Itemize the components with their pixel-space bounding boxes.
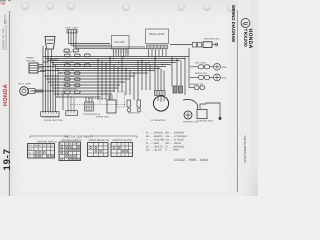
- svg-text:BRAKE SW: BRAKE SW: [195, 72, 207, 75]
- svg-text:SPARK UNIT: SPARK UNIT: [96, 116, 110, 119]
- svg-text:ALTERNATOR: ALTERNATOR: [151, 119, 166, 122]
- svg-text:19-7: 19-7: [2, 148, 13, 170]
- svg-text:TAIL LIGHT: TAIL LIGHT: [195, 62, 207, 65]
- svg-text:ALTERNATOR 4P: ALTERNATOR 4P: [42, 116, 60, 119]
- svg-text:TL: TL: [65, 143, 67, 146]
- svg-text:HL: HL: [60, 143, 62, 146]
- svg-text:CONTROL BOX: CONTROL BOX: [197, 120, 213, 123]
- svg-text:HEAD LIGHT: HEAD LIGHT: [65, 27, 79, 30]
- svg-text:HM: HM: [1, 2, 6, 6]
- svg-text:BRAKE SW: BRAKE SW: [63, 81, 75, 84]
- svg-text:SPARK UNIT GND: SPARK UNIT GND: [44, 119, 63, 122]
- svg-text:LIGHTING SWITCH: LIGHTING SWITCH: [61, 139, 82, 142]
- svg-text:P ...... PINK: P ...... PINK: [166, 149, 180, 152]
- svg-text:FRONT BRAKE SW: FRONT BRAKE SW: [89, 139, 110, 142]
- svg-text:HORN SW: HORN SW: [63, 75, 75, 78]
- svg-text:BU ..... BLUE: BU ..... BLUE: [146, 149, 162, 152]
- svg-text:GND: GND: [222, 66, 227, 69]
- svg-text:GROUND: GROUND: [26, 60, 36, 63]
- svg-text:HONDA: HONDA: [3, 84, 9, 106]
- svg-text:MAIN FUSE: MAIN FUSE: [128, 112, 140, 115]
- svg-text:LIGHT SW: LIGHT SW: [63, 61, 74, 64]
- svg-text:PILOT LAMP: PILOT LAMP: [18, 83, 31, 86]
- svg-text:IGNITION SWITCH: IGNITION SWITCH: [37, 140, 57, 143]
- svg-text:SWITCH CONTINUITY: SWITCH CONTINUITY: [64, 134, 94, 138]
- svg-text:DIMMER SW: DIMMER SW: [190, 83, 204, 86]
- svg-text:STARTER RELAY: STARTER RELAY: [83, 113, 101, 116]
- svg-text:LIGHTS/SWITCHES: LIGHTS/SWITCHES: [243, 135, 247, 163]
- svg-text:REGULATOR: REGULATOR: [149, 33, 165, 36]
- svg-text:IGNITION SW: IGNITION SW: [63, 88, 78, 91]
- svg-text:DIMMER SW: DIMMER SW: [63, 51, 77, 54]
- svg-text:IGNITION COIL: IGNITION COIL: [204, 38, 220, 41]
- svg-text:TL: TL: [43, 144, 45, 147]
- svg-text:GND: GND: [222, 77, 227, 80]
- svg-text:WIRING DIAGRAM: WIRING DIAGRAM: [231, 5, 236, 42]
- svg-text:CDI UNIT: CDI UNIT: [114, 41, 125, 44]
- svg-text:TRX200: TRX200: [243, 29, 248, 48]
- svg-text:STARTER SWITCH: STARTER SWITCH: [112, 139, 133, 142]
- svg-text:0030Z - HM5 - 0804: 0030Z - HM5 - 0804: [175, 158, 209, 162]
- svg-text:FRAME: FRAME: [26, 57, 34, 60]
- svg-text:START SW: START SW: [63, 69, 75, 72]
- svg-text:PRINTED: PRINTED: [4, 14, 7, 24]
